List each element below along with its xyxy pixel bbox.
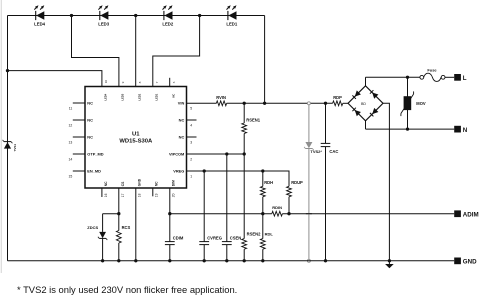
wire CS to ZDCS: [103, 213, 119, 215]
svg-text:LED3: LED3: [121, 93, 125, 100]
pin 14 OTP_MD: [73, 153, 85, 155]
wire bridge bottom to N rail: [365, 121, 367, 129]
svg-text:LED1: LED1: [226, 22, 238, 27]
svg-text:TVS2*: TVS2*: [310, 149, 322, 154]
svg-text:RDP: RDP: [333, 95, 342, 100]
frame left border: [0, 0, 2, 273]
svg-text:LED4: LED4: [104, 93, 108, 100]
wire bridge top to L rail: [365, 77, 367, 86]
wire L rail: [366, 76, 420, 78]
node CVREG top: [203, 169, 206, 172]
wire VIN rail: [187, 102, 217, 104]
wire bridge minus output down: [383, 103, 389, 260]
LED LED4: [34, 5, 46, 26]
fuse Fuse: [420, 67, 445, 81]
svg-text:LED2: LED2: [137, 93, 141, 100]
svg-text:11: 11: [69, 107, 73, 111]
wire pin18 GND to rail: [135, 188, 137, 261]
resistor RSEN1: [243, 103, 245, 123]
capacitor CVREG: [203, 171, 205, 242]
svg-text:13: 13: [69, 141, 73, 145]
svg-text:BD: BD: [361, 102, 366, 106]
svg-text:NC: NC: [179, 118, 185, 123]
svg-text:VIPCOM: VIPCOM: [169, 152, 184, 157]
node junction LED4-LED3: [70, 14, 73, 17]
pin 11 NC: [73, 102, 85, 104]
wire DIM line to ADIM terminal: [170, 213, 272, 215]
wire tap LED3/LED2 to IC pin 8: [135, 16, 137, 87]
svg-text:16: 16: [104, 193, 108, 197]
svg-text:EN_MD: EN_MD: [87, 169, 101, 174]
node DIM junction above CDIM: [168, 212, 171, 215]
svg-text:OTP_MD: OTP_MD: [87, 152, 103, 157]
svg-text:U1: U1: [132, 131, 140, 137]
svg-text:TVS1: TVS1: [13, 144, 17, 152]
node LED1 feed: [263, 102, 266, 105]
node CAC top: [324, 102, 327, 105]
wire tap LED4/LED3 to IC pin 9: [72, 16, 119, 87]
svg-text:12: 12: [69, 124, 73, 128]
svg-text:LED4: LED4: [34, 22, 46, 27]
node RDH top: [261, 169, 264, 172]
node CS junction: [117, 212, 120, 215]
svg-text:RDUP: RDUP: [291, 180, 303, 185]
svg-text:WD15-S30A: WD15-S30A: [119, 138, 153, 144]
resistor RDIN: [272, 205, 283, 216]
svg-text:Fuse: Fuse: [427, 67, 437, 72]
svg-text:20: 20: [172, 193, 176, 197]
svg-text:RVIN: RVIN: [216, 95, 226, 100]
TVS diode TVS1: [3, 140, 18, 152]
svg-text:VIN: VIN: [178, 101, 185, 106]
pin 13 NC: [73, 136, 85, 138]
svg-text:ZDCS: ZDCS: [87, 225, 98, 230]
svg-text:18: 18: [138, 193, 142, 197]
svg-text:RSEN1: RSEN1: [246, 117, 261, 122]
terminal ADIM: [454, 210, 478, 218]
resistor RDL: [262, 214, 264, 239]
svg-text:6: 6: [172, 81, 176, 83]
node junction LED3-LED2: [134, 14, 137, 17]
svg-text:NC: NC: [104, 181, 108, 186]
pin 3 NC: [187, 136, 197, 138]
wire pin20 DIM: [169, 188, 171, 214]
capacitor CAC: [321, 103, 339, 260]
ground symbol: [385, 261, 394, 269]
resistor RDUP: [288, 185, 290, 187]
svg-text:* TVS2 is only used 230V non f: * TVS2 is only used 230V non flicker fre…: [17, 284, 237, 295]
svg-text:2: 2: [190, 158, 192, 162]
resistor RDP: [333, 95, 343, 106]
svg-text:15: 15: [69, 175, 73, 179]
node GND rail junction x=169.8: [168, 259, 171, 262]
svg-text:RDL: RDL: [265, 231, 274, 236]
wire pin17 CS: [118, 188, 120, 214]
svg-text:L: L: [463, 75, 467, 82]
wire tap LED string top to IC pin 10: [6, 69, 9, 72]
wire top LED rail: [8, 15, 265, 17]
node RDUP bottom: [287, 212, 290, 215]
svg-text:RDIN: RDIN: [272, 205, 282, 210]
LED LED2: [162, 5, 174, 26]
svg-text:ADIM: ADIM: [463, 211, 479, 218]
terminal N: [454, 126, 468, 134]
node MOV top: [406, 76, 409, 79]
wire pin 6 stub: [169, 78, 171, 87]
wire pin19 stub: [152, 188, 154, 196]
svg-text:RDH: RDH: [264, 180, 273, 185]
svg-text:NC: NC: [87, 118, 93, 123]
svg-text:CVREG: CVREG: [207, 235, 222, 240]
wire DIM line crossing restore: [306, 213, 312, 215]
svg-text:DIM: DIM: [172, 180, 176, 186]
wire VREG line: [187, 171, 290, 186]
svg-text:NC: NC: [155, 181, 159, 186]
TVS diode TVS2 (optional, grey): [304, 102, 322, 262]
svg-text:NC: NC: [171, 94, 175, 98]
svg-text:GND: GND: [138, 178, 142, 186]
svg-text:VREG: VREG: [173, 169, 184, 174]
svg-text:CSEN: CSEN: [230, 235, 242, 240]
terminal L: [454, 74, 467, 82]
wire N rail: [366, 128, 455, 130]
svg-text:NC: NC: [179, 135, 185, 140]
node GND rail junction x=118.8: [117, 259, 120, 262]
svg-text:N: N: [463, 127, 468, 134]
node GND rail junction x=226.8: [225, 259, 228, 262]
svg-text:CS: CS: [121, 181, 125, 186]
svg-text:RCS: RCS: [122, 225, 131, 230]
svg-text:CDIM: CDIM: [173, 235, 184, 240]
node GND rail junction x=135.8: [134, 259, 137, 262]
svg-text:CAC: CAC: [329, 149, 338, 154]
resistor RDH: [262, 171, 264, 186]
node GND rail junction x=244.2: [243, 259, 246, 262]
LED LED1: [226, 5, 238, 26]
node MOV bottom: [406, 127, 409, 130]
wire LED1 to VIN rail: [264, 16, 266, 104]
node GND rail junction x=102.6: [101, 259, 104, 262]
svg-text:MOV: MOV: [416, 101, 426, 106]
pin 12 NC: [73, 119, 85, 121]
terminal GND: [454, 258, 477, 266]
node GND rail junction x=325.5: [324, 259, 327, 262]
node VIPCOM / RSEN2: [243, 152, 246, 155]
node RSEN1 top: [243, 102, 246, 105]
capacitor CDIM: [169, 214, 171, 242]
node GND rail junction x=262.8: [261, 259, 264, 262]
svg-text:10: 10: [104, 80, 108, 84]
resistor RSEN2: [243, 154, 245, 239]
svg-text:8: 8: [138, 81, 142, 83]
node GND rail junction x=204.2: [203, 259, 206, 262]
op-amp / IC U1 WD15-S30A body: [85, 87, 187, 189]
bridge rectifier BD: [348, 86, 383, 121]
wire pin16 stub: [101, 188, 103, 197]
pin 4 NC: [187, 119, 197, 121]
svg-text:GND: GND: [463, 259, 477, 266]
svg-text:5: 5: [190, 107, 192, 111]
svg-text:RSEN2: RSEN2: [247, 231, 262, 236]
wire VIPCOM line: [187, 153, 245, 155]
MOV varistor: [401, 77, 426, 129]
node CSEN top: [225, 152, 228, 155]
node junction LED2-LED1: [198, 14, 201, 17]
svg-text:LED1: LED1: [155, 93, 159, 100]
wire tap LED2/LED1 to IC pin 7: [153, 16, 200, 87]
wire GND rail: [8, 260, 455, 262]
svg-text:19: 19: [155, 193, 159, 197]
node RDH bottom: [261, 212, 264, 215]
LED LED3: [98, 5, 110, 26]
svg-text:4: 4: [190, 124, 192, 128]
pin 15 EN_MD: [73, 170, 85, 172]
node GND rail junction x=389.4: [388, 259, 391, 262]
svg-text:17: 17: [121, 193, 125, 197]
svg-text:NC: NC: [87, 101, 93, 106]
svg-text:LED2: LED2: [162, 22, 174, 27]
svg-text:9: 9: [121, 81, 125, 83]
resistor RVIN: [216, 95, 226, 106]
capacitor CSEN: [226, 154, 228, 242]
svg-text:3: 3: [190, 141, 192, 145]
svg-text:14: 14: [69, 158, 73, 162]
svg-text:LED3: LED3: [98, 22, 110, 27]
svg-text:7: 7: [155, 81, 159, 83]
wire left rail: [7, 16, 9, 261]
svg-text:NC: NC: [87, 135, 93, 140]
zener diode ZDCS: [87, 225, 107, 261]
resistor RCS: [118, 214, 120, 231]
svg-text:1: 1: [190, 175, 192, 179]
